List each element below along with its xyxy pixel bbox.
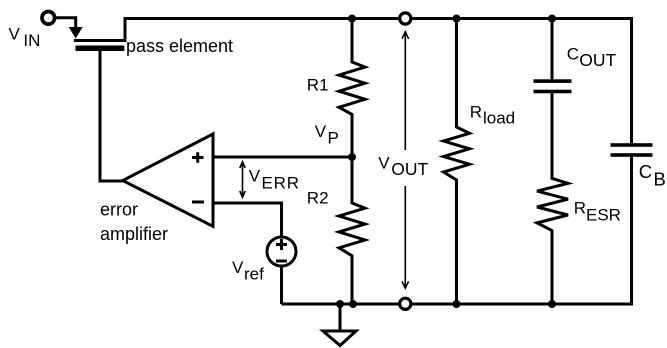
svg-text:V: V	[232, 258, 244, 277]
svg-text:OUT: OUT	[391, 159, 428, 179]
svg-text:ESR: ESR	[586, 206, 621, 225]
svg-text:R1: R1	[307, 76, 329, 95]
svg-text:amplifier: amplifier	[100, 224, 168, 244]
svg-text:V: V	[378, 153, 390, 172]
svg-text:ERR: ERR	[262, 174, 300, 193]
svg-text:P: P	[328, 128, 339, 147]
svg-text:C: C	[567, 45, 579, 64]
svg-text:OUT: OUT	[579, 50, 616, 70]
svg-text:V: V	[249, 167, 261, 186]
svg-text:V: V	[9, 25, 21, 44]
svg-text:load: load	[483, 108, 515, 127]
svg-text:ref: ref	[244, 265, 264, 284]
svg-text:R: R	[574, 199, 586, 218]
svg-text:C: C	[639, 161, 652, 182]
svg-text:V: V	[315, 122, 327, 141]
svg-text:IN: IN	[23, 31, 40, 50]
svg-text:pass element: pass element	[126, 36, 233, 56]
svg-text:R2: R2	[307, 189, 329, 208]
svg-text:error: error	[100, 200, 138, 220]
svg-text:R: R	[470, 103, 482, 122]
svg-text:B: B	[654, 169, 666, 190]
